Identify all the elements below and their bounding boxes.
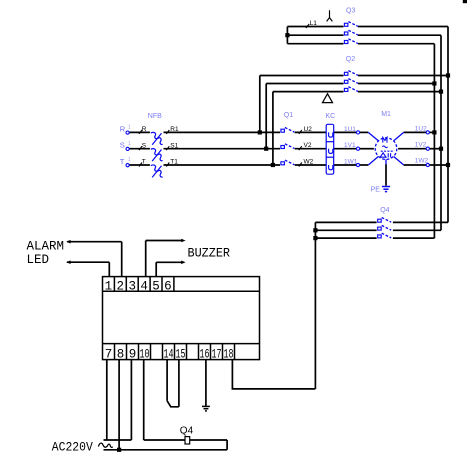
svg-text:S: S [142, 142, 147, 149]
svg-text:LED: LED [27, 253, 50, 267]
svg-text:15: 15 [176, 348, 186, 362]
svg-text:6: 6 [164, 280, 172, 294]
svg-text:1W1: 1W1 [344, 159, 358, 166]
svg-text:L1: L1 [310, 20, 318, 27]
svg-text:Q4: Q4 [180, 426, 194, 437]
svg-text:T1: T1 [170, 159, 178, 166]
svg-text:18: 18 [224, 348, 234, 362]
svg-text:ALARM: ALARM [27, 239, 65, 253]
svg-text:1V2: 1V2 [415, 141, 427, 148]
svg-text:14: 14 [164, 348, 174, 362]
svg-text:1: 1 [128, 125, 131, 131]
svg-text:R1: R1 [170, 126, 179, 133]
svg-text:1V1: 1V1 [344, 142, 356, 149]
svg-text:1: 1 [128, 157, 131, 163]
svg-text:17: 17 [212, 348, 222, 362]
svg-text:8: 8 [117, 348, 125, 362]
svg-text:R: R [120, 124, 126, 133]
svg-text:BUZZER: BUZZER [188, 246, 231, 260]
svg-text:7: 7 [105, 348, 113, 362]
svg-text:PE: PE [371, 186, 381, 193]
svg-text:S: S [120, 141, 125, 150]
svg-text:KC: KC [326, 113, 336, 120]
svg-text:5: 5 [152, 280, 160, 294]
svg-text:U2: U2 [304, 126, 313, 133]
svg-text:S1: S1 [170, 142, 178, 149]
svg-text:1U1: 1U1 [344, 126, 356, 133]
svg-text:9: 9 [129, 348, 137, 362]
svg-text:16: 16 [200, 348, 210, 362]
svg-text:3: 3 [128, 280, 136, 294]
svg-text:AC220V: AC220V [52, 440, 93, 454]
svg-text:NFB: NFB [148, 113, 162, 120]
svg-text:T: T [120, 157, 125, 166]
svg-text:W2: W2 [304, 159, 314, 166]
svg-text:R: R [142, 126, 147, 133]
svg-text:1U2: 1U2 [415, 125, 427, 132]
svg-text:2: 2 [117, 280, 125, 294]
svg-text:Q3: Q3 [346, 8, 355, 15]
svg-text:1: 1 [128, 141, 131, 147]
svg-text:10: 10 [140, 348, 150, 362]
svg-text:1W2: 1W2 [415, 158, 429, 165]
svg-text:1: 1 [105, 280, 113, 294]
svg-text:V2: V2 [304, 142, 312, 149]
svg-text:4: 4 [140, 280, 148, 294]
svg-text:Q2: Q2 [346, 56, 355, 63]
svg-text:Q1: Q1 [284, 112, 293, 119]
svg-text:M1: M1 [381, 111, 391, 118]
svg-text:T: T [142, 159, 146, 166]
svg-text:Q4: Q4 [380, 207, 389, 214]
